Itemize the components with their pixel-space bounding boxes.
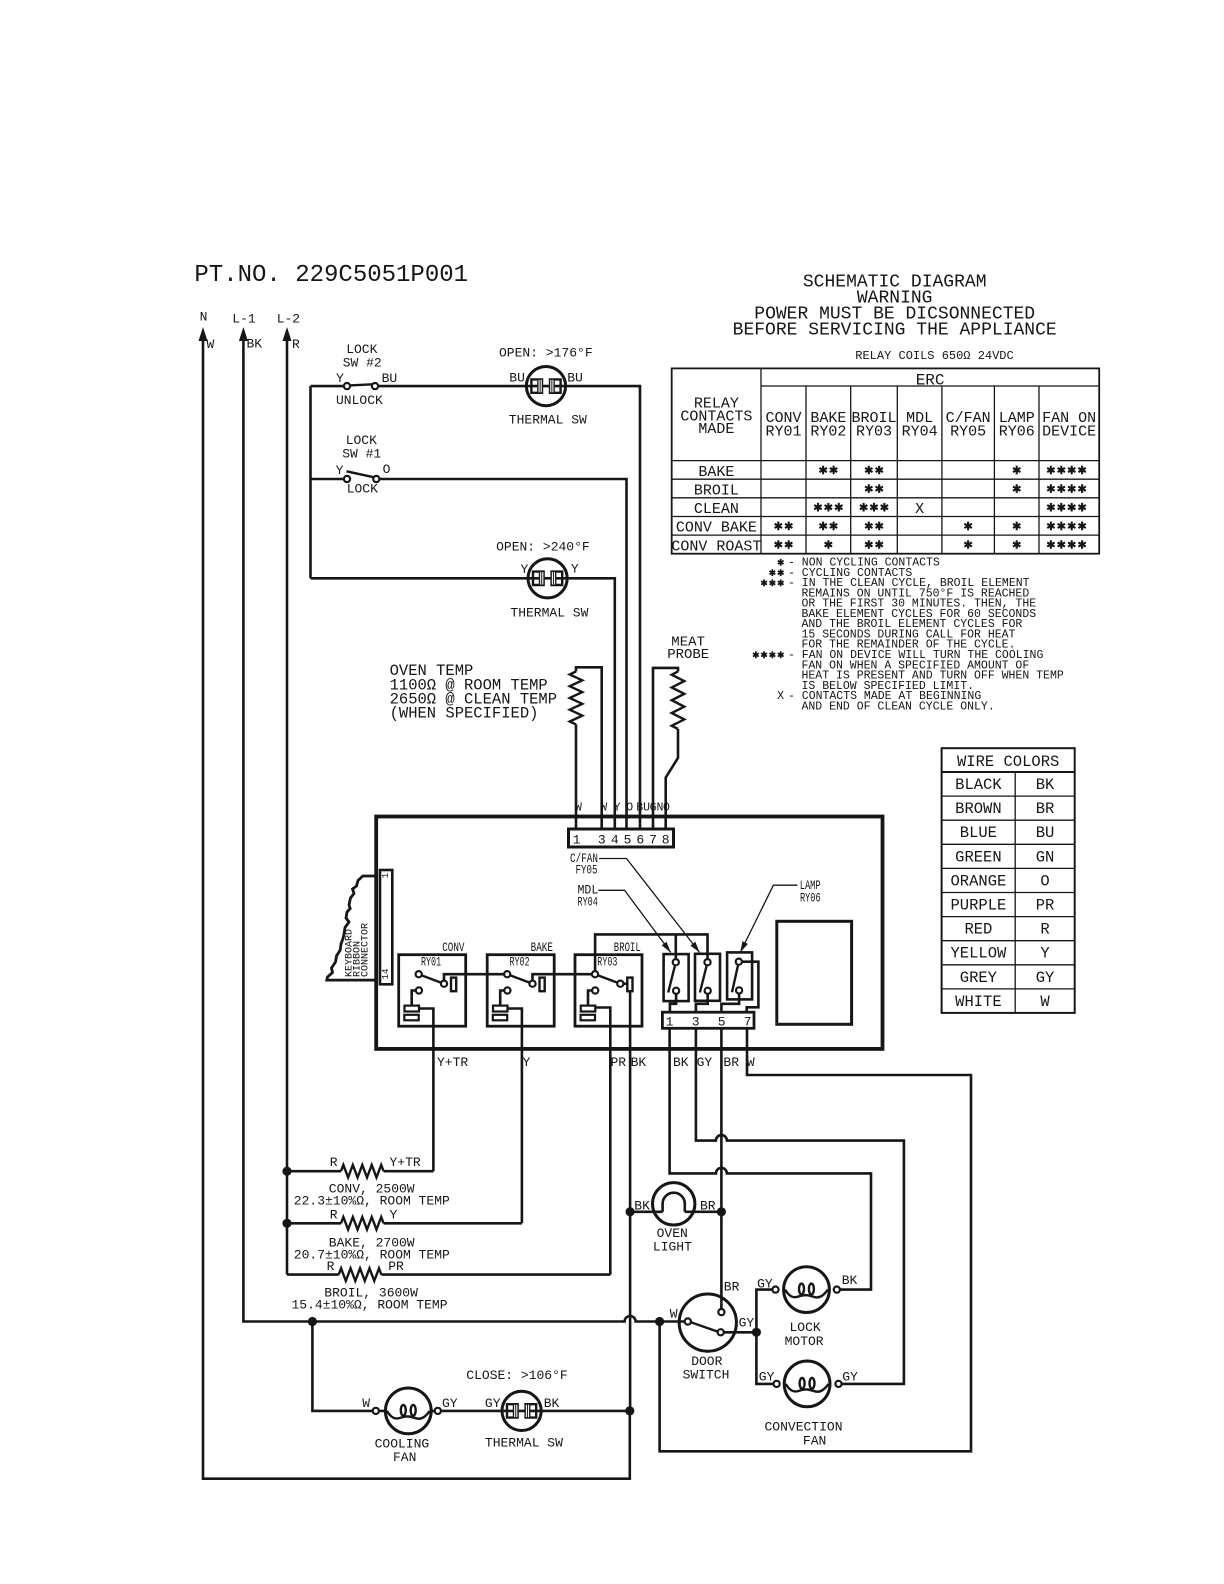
svg-text:O: O xyxy=(1040,872,1049,890)
svg-text:ORANGE: ORANGE xyxy=(950,872,1006,890)
meat probe resistor (pins 7-8) xyxy=(653,668,684,829)
svg-text:W: W xyxy=(207,337,215,352)
svg-text:GY: GY xyxy=(757,1276,773,1291)
label C/FAN FY05 with leader xyxy=(570,851,700,952)
spare component box inside ERC xyxy=(777,921,852,1024)
cooling fan motor xyxy=(362,1388,458,1465)
svg-text:CONV ROAST: CONV ROAST xyxy=(671,538,761,555)
svg-text:Y: Y xyxy=(336,371,344,386)
oven temp sensor label xyxy=(390,662,557,723)
wire CONV relay output to BAKE relay input xyxy=(444,974,507,984)
svg-text:RY06: RY06 xyxy=(999,424,1035,441)
svg-text:CLEAN: CLEAN xyxy=(694,501,739,518)
svg-text:R: R xyxy=(330,1155,338,1170)
svg-text:FAN: FAN xyxy=(393,1450,416,1465)
svg-text:3: 3 xyxy=(692,1014,700,1029)
svg-text:R: R xyxy=(292,337,300,352)
wire L-1 vertical + horizontal run to door switch (hops over broil BK wire) xyxy=(243,338,684,1322)
wire BAKE coil to bake element (Y) xyxy=(507,1009,522,1224)
wire colors table xyxy=(942,748,1075,1013)
svg-text:LOCK: LOCK xyxy=(346,433,377,448)
svg-text:Y: Y xyxy=(390,1208,398,1223)
svg-text:7: 7 xyxy=(649,833,657,848)
junction L-2 / conv element xyxy=(282,1167,291,1176)
svg-text:GY: GY xyxy=(485,1396,501,1411)
svg-text:LOCK: LOCK xyxy=(790,1320,821,1335)
lock switch SW #2 (unlock) xyxy=(336,342,397,408)
svg-text:PURPLE: PURPLE xyxy=(950,897,1006,915)
svg-text:PR: PR xyxy=(388,1259,404,1274)
ERC control board box xyxy=(376,817,882,1049)
svg-text:(WHEN SPECIFIED): (WHEN SPECIFIED) xyxy=(390,705,539,723)
wire L-1 junction down to cooling fan row xyxy=(312,1322,629,1411)
svg-text:MOTOR: MOTOR xyxy=(785,1334,824,1349)
ERC output wire labels xyxy=(437,1055,755,1070)
wire pin5 BR to oven light and door switch xyxy=(720,1028,723,1309)
junction L-1 / cooling fan drop xyxy=(308,1317,317,1326)
ERC pin labels above connector xyxy=(575,802,670,815)
oven temp sensor resistor (pins 1-3) xyxy=(570,667,602,829)
svg-text:RY05: RY05 xyxy=(950,424,986,441)
svg-text:O: O xyxy=(383,462,391,477)
svg-text:R: R xyxy=(327,1259,335,1274)
svg-text:BK: BK xyxy=(634,1199,650,1214)
wire L-2 vertical feeding elements xyxy=(286,338,289,1275)
svg-text:GY: GY xyxy=(1036,969,1055,987)
svg-text:FAN: FAN xyxy=(803,1433,826,1448)
svg-text:RY03: RY03 xyxy=(856,424,892,441)
oven light lamp xyxy=(630,1183,721,1255)
svg-text:RY02: RY02 xyxy=(510,954,530,969)
wire pin3 GY to convection fan (hops BR wire) xyxy=(696,1028,904,1384)
wire BAKE relay output to BROIL relay input xyxy=(533,974,596,984)
conv element resistor 2500W xyxy=(287,1155,450,1209)
svg-text:RED: RED xyxy=(964,921,992,939)
svg-text:DEVICE: DEVICE xyxy=(1042,424,1096,441)
svg-text:15.4±10%Ω, ROOM TEMP: 15.4±10%Ω, ROOM TEMP xyxy=(292,1298,448,1313)
svg-text:BU: BU xyxy=(509,370,525,385)
wire N vertical + bottom rail xyxy=(203,338,630,1479)
svg-text:BK: BK xyxy=(631,1055,647,1070)
svg-text:RY04: RY04 xyxy=(578,895,598,910)
svg-text:CONNECTOR: CONNECTOR xyxy=(361,923,372,977)
node L-2 feed arrow xyxy=(277,312,300,353)
switch C/FAN RY05 xyxy=(695,954,720,1001)
svg-text:BK: BK xyxy=(842,1273,858,1288)
thermal 240F row wire to ERC pin 4 xyxy=(311,578,615,829)
svg-text:Y: Y xyxy=(571,562,579,577)
svg-text:BROWN: BROWN xyxy=(955,800,1002,818)
wire pin7 W right-hand loop to L-1 junction xyxy=(660,1028,971,1451)
lock switch SW1 row wire to ERC pin 5 xyxy=(311,479,627,829)
svg-text:W: W xyxy=(670,1306,678,1321)
svg-text:Y: Y xyxy=(523,1055,531,1070)
svg-text:BEFORE SERVICING THE APPLIANCE: BEFORE SERVICING THE APPLIANCE xyxy=(733,321,1057,341)
svg-text:RY03: RY03 xyxy=(597,954,617,969)
svg-text:Y+TR: Y+TR xyxy=(437,1055,468,1070)
part number label xyxy=(194,262,468,289)
svg-text:W: W xyxy=(362,1396,370,1411)
svg-text:OPEN: >176°F: OPEN: >176°F xyxy=(499,345,593,360)
svg-text:Y: Y xyxy=(1040,945,1050,963)
svg-text:LOCK: LOCK xyxy=(347,481,378,496)
wire BROIL contact output (BK) down to cooling-fan junction xyxy=(623,984,630,1411)
svg-text:X: X xyxy=(777,690,784,703)
svg-text:W: W xyxy=(1040,993,1050,1011)
svg-text:BR: BR xyxy=(724,1279,740,1294)
svg-text:SW #2: SW #2 xyxy=(343,355,382,370)
svg-text:ERC: ERC xyxy=(916,372,945,390)
svg-text:BK: BK xyxy=(247,337,263,352)
relay RY02 BAKE xyxy=(487,940,554,1026)
svg-text:YELLOW: YELLOW xyxy=(950,945,1007,963)
svg-text:22.3±10%Ω, ROOM TEMP: 22.3±10%Ω, ROOM TEMP xyxy=(294,1194,450,1209)
svg-text:BU: BU xyxy=(567,370,583,385)
svg-text:CONV: CONV xyxy=(442,940,464,955)
relay contacts table header text xyxy=(680,372,1096,441)
svg-text:3: 3 xyxy=(598,833,606,848)
convection fan motor xyxy=(759,1361,858,1448)
svg-text:CLOSE: >106°F: CLOSE: >106°F xyxy=(466,1368,567,1383)
svg-text:BU: BU xyxy=(1036,824,1055,842)
svg-text:BK: BK xyxy=(673,1055,689,1070)
svg-text:CONV BAKE: CONV BAKE xyxy=(676,520,757,537)
svg-text:BR: BR xyxy=(1036,800,1055,818)
svg-text:1: 1 xyxy=(666,1014,674,1029)
svg-text:L-2: L-2 xyxy=(277,312,300,327)
svg-text:THERMAL SW: THERMAL SW xyxy=(510,606,588,621)
relay coil rating note xyxy=(855,349,1013,363)
bake element resistor 2700W xyxy=(287,1208,522,1263)
wire lock-switch bus vertical xyxy=(309,386,312,578)
svg-text:MADE: MADE xyxy=(698,421,734,438)
lock motor xyxy=(757,1267,857,1349)
table footnotes xyxy=(753,557,1064,714)
wire C/FAN switch to strip pin 3 xyxy=(696,994,708,1012)
svg-text:GREEN: GREEN xyxy=(955,848,1002,866)
switch LAMP RY06 xyxy=(727,952,752,999)
svg-text:SWITCH: SWITCH xyxy=(683,1367,730,1382)
svg-text:BAKE: BAKE xyxy=(698,464,734,481)
svg-text:RY01: RY01 xyxy=(765,424,801,441)
svg-text:Y+TR: Y+TR xyxy=(390,1155,421,1170)
wire BROIL input to MDL / C-FAN switch rail xyxy=(595,934,707,974)
wire CONV coil to conv element (Y+TR) xyxy=(419,1009,434,1172)
svg-text:PR: PR xyxy=(611,1055,627,1070)
svg-text:BLACK: BLACK xyxy=(955,776,1002,794)
svg-text:L-1: L-1 xyxy=(232,312,256,327)
svg-text:O: O xyxy=(663,802,670,815)
lock switch SW2 row wire to ERC pin 6 xyxy=(311,386,641,829)
svg-text:6: 6 xyxy=(636,833,644,848)
svg-text:GN: GN xyxy=(1036,848,1055,866)
keyboard ribbon connector xyxy=(327,870,393,984)
svg-text:BLUE: BLUE xyxy=(960,824,997,842)
junction cooling row / broil BK / N rail xyxy=(625,1406,634,1415)
svg-text:5: 5 xyxy=(624,833,632,848)
wire door switch GY to lock motor and convection fan xyxy=(724,1290,779,1384)
svg-text:UNLOCK: UNLOCK xyxy=(336,393,383,408)
svg-text:RY02: RY02 xyxy=(810,424,846,441)
relay RY03 BROIL xyxy=(575,940,642,1026)
svg-text:BAKE: BAKE xyxy=(531,940,554,955)
svg-text:BK: BK xyxy=(544,1396,560,1411)
svg-text:Y: Y xyxy=(614,802,621,815)
svg-text:BU: BU xyxy=(382,371,398,386)
svg-text:Y: Y xyxy=(521,562,529,577)
relay contacts table frame xyxy=(672,368,1099,553)
node N feed arrow xyxy=(199,310,215,353)
svg-text:4: 4 xyxy=(611,833,619,848)
svg-text:RY04: RY04 xyxy=(902,424,938,441)
junction door switch GY branch xyxy=(752,1328,761,1337)
junction L-2 / bake element xyxy=(282,1219,291,1228)
svg-text:BR: BR xyxy=(723,1055,739,1070)
svg-text:FY05: FY05 xyxy=(576,863,598,878)
switch MDL RY04 xyxy=(664,954,689,1001)
svg-text:N: N xyxy=(200,310,208,325)
svg-text:GY: GY xyxy=(759,1369,775,1384)
thermal switch 240F xyxy=(496,539,590,620)
wire BROIL coil to broil element (PR) xyxy=(595,1008,610,1275)
relay contacts table rows xyxy=(671,464,1085,556)
svg-text:BK: BK xyxy=(1036,776,1055,794)
svg-text:CONVECTION: CONVECTION xyxy=(765,1419,843,1434)
thermal switch 176F xyxy=(499,345,593,427)
svg-text:1: 1 xyxy=(573,833,581,848)
svg-text:O: O xyxy=(626,802,633,815)
svg-text:AND END OF CLEAN CYCLE ONLY.: AND END OF CLEAN CYCLE ONLY. xyxy=(802,700,995,713)
svg-text:BU: BU xyxy=(636,802,650,815)
svg-text:GREY: GREY xyxy=(960,969,998,987)
junction oven light / broil BK wire xyxy=(626,1207,635,1216)
label LAMP RY06 with leader xyxy=(740,878,821,952)
svg-text:WHITE: WHITE xyxy=(955,993,1002,1011)
svg-text:BROIL: BROIL xyxy=(614,940,641,955)
svg-text:OPEN: >240°F: OPEN: >240°F xyxy=(496,539,590,554)
lock switch SW #1 (lock) xyxy=(336,433,391,497)
svg-text:PR: PR xyxy=(1036,897,1055,915)
svg-text:8: 8 xyxy=(662,833,670,848)
svg-text:BROIL: BROIL xyxy=(694,482,739,499)
wire pin1 BK to lock motor (hops BR wire) xyxy=(670,1028,871,1289)
door switch xyxy=(670,1279,755,1382)
ERC lower connector strip pins 1,3,5,7 xyxy=(662,1012,754,1029)
svg-text:THERMAL SW: THERMAL SW xyxy=(509,412,587,427)
schematic title / warning block xyxy=(733,273,1057,341)
wire LAMP switch top to strip pin 7 xyxy=(742,962,759,1013)
svg-text:Y: Y xyxy=(336,463,344,478)
svg-text:W: W xyxy=(575,802,582,815)
svg-text:20.7±10%Ω, ROOM TEMP: 20.7±10%Ω, ROOM TEMP xyxy=(294,1248,450,1263)
svg-text:RY06: RY06 xyxy=(800,891,821,906)
svg-text:GN: GN xyxy=(650,802,664,815)
svg-text:GY: GY xyxy=(842,1369,858,1384)
svg-text:GY: GY xyxy=(442,1396,458,1411)
svg-text:R: R xyxy=(330,1208,338,1223)
svg-text:7: 7 xyxy=(744,1014,752,1029)
svg-text:GY: GY xyxy=(697,1055,713,1070)
svg-text:LIGHT: LIGHT xyxy=(653,1240,692,1255)
svg-text:SW #1: SW #1 xyxy=(342,447,381,462)
svg-text:RY01: RY01 xyxy=(421,954,441,969)
junction L-1 / W loop / door switch xyxy=(655,1317,664,1326)
broil element resistor 3600W xyxy=(287,1259,610,1313)
svg-text:WIRE COLORS: WIRE COLORS xyxy=(957,753,1059,771)
svg-text:R: R xyxy=(1040,921,1049,939)
svg-text:W: W xyxy=(600,802,607,815)
junction oven light / BR wire xyxy=(717,1207,726,1216)
svg-text:5: 5 xyxy=(718,1014,726,1029)
svg-text:THERMAL SW: THERMAL SW xyxy=(485,1435,563,1450)
label MDL RY04 with leader xyxy=(578,883,671,953)
svg-text:X: X xyxy=(915,501,924,518)
wire MDL switch to strip pin 1 xyxy=(670,994,676,1012)
svg-text:14: 14 xyxy=(381,969,391,980)
thermal switch 106F xyxy=(466,1368,567,1450)
svg-text:GY: GY xyxy=(739,1315,755,1330)
relay RY01 CONV xyxy=(399,940,466,1026)
wire LAMP switch bottom to strip pin 5 xyxy=(721,994,739,1013)
node L-1 feed arrow xyxy=(232,312,262,352)
svg-text:PT.NO. 229C5051P001: PT.NO. 229C5051P001 xyxy=(194,262,468,289)
ERC 8-pin connector strip xyxy=(569,829,674,848)
svg-text:RELAY COILS 650Ω 24VDC: RELAY COILS 650Ω 24VDC xyxy=(855,349,1013,363)
meat probe label xyxy=(667,634,709,663)
svg-text:PROBE: PROBE xyxy=(667,647,709,663)
svg-text:1: 1 xyxy=(381,873,391,878)
svg-text:BR: BR xyxy=(700,1199,716,1214)
